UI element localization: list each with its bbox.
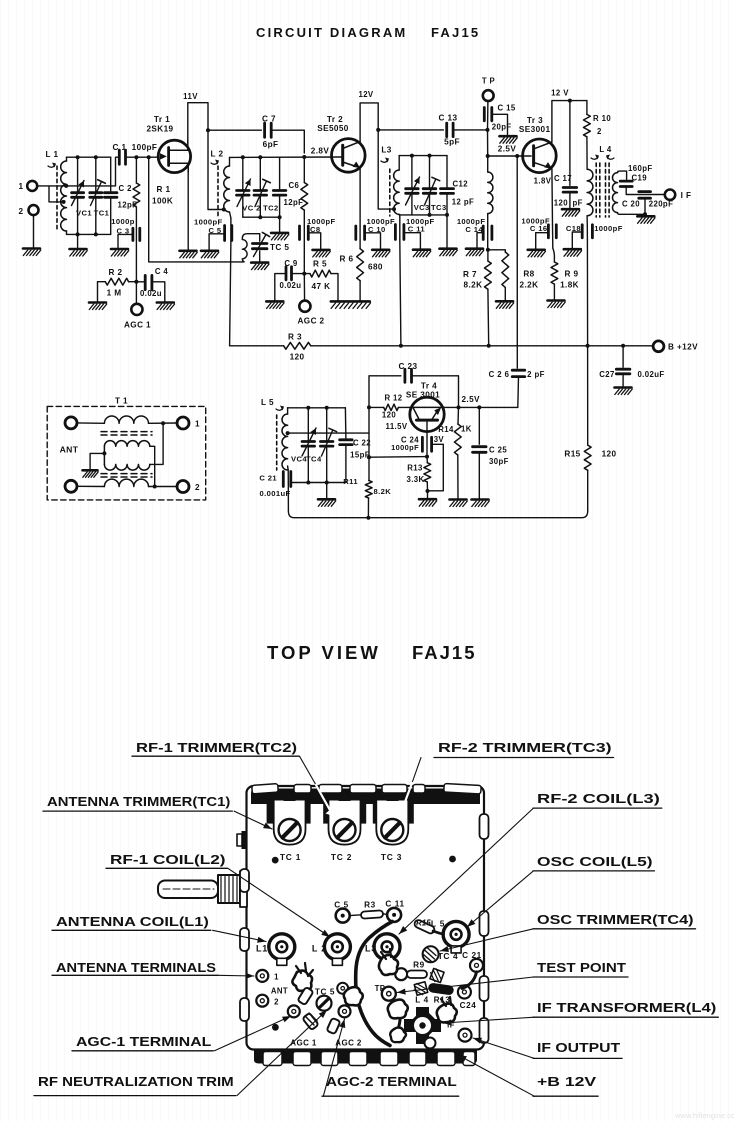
svg-text:RF-1 TRIMMER(TC2): RF-1 TRIMMER(TC2): [136, 740, 297, 755]
svg-text:RF-1 COIL(L2): RF-1 COIL(L2): [110, 852, 226, 867]
ground L1 tank: [70, 249, 88, 256]
svg-text:C 16: C 16: [530, 224, 548, 233]
svg-text:3.3K: 3.3K: [406, 475, 424, 484]
wire L2 tank top rail / Tr2 base line: [230, 156, 343, 158]
wire R10 to L4 primary: [586, 137, 588, 169]
svg-text:R8: R8: [523, 270, 534, 279]
pcb transistor blob 3: [379, 955, 398, 975]
svg-text:C8: C8: [310, 225, 321, 234]
coil T1 middle winding: [104, 441, 149, 447]
wire L2 tank bottom rail: [243, 216, 280, 218]
svg-text:RF-2 COIL(L3): RF-2 COIL(L3): [537, 791, 660, 806]
svg-text:+B 12V: +B 12V: [537, 1074, 597, 1089]
svg-text:R15: R15: [416, 919, 431, 928]
ground C27: [615, 388, 633, 395]
resistor R15 120: [587, 346, 589, 445]
wire L4 primary bottom to rail and R15: [586, 240, 588, 346]
svg-text:SE3001: SE3001: [519, 125, 551, 134]
wire 12V rail to C13: [378, 129, 443, 131]
svg-text:C 10: C 10: [368, 225, 386, 234]
pcb cap C21: [470, 959, 483, 972]
svg-text:5pF: 5pF: [444, 138, 460, 147]
ground C3: [111, 249, 129, 256]
svg-text:680: 680: [368, 263, 383, 272]
wire Tr4 base line: [426, 420, 428, 437]
svg-text:C 11: C 11: [385, 900, 404, 909]
pcb coil L1: [269, 934, 295, 960]
pcb small parts bottom: [297, 987, 313, 1005]
svg-text:www.hifiengine.com: www.hifiengine.com: [674, 1111, 734, 1120]
wire 12V feed to L3 tap: [378, 130, 392, 209]
wire T1 middle right links: [150, 446, 155, 486]
terminal antenna input 2: [29, 205, 39, 215]
wire rail to C7: [208, 129, 261, 131]
svg-text:C18: C18: [566, 224, 581, 233]
wire base node to Tr3: [488, 155, 531, 157]
trimmer TC3 body: [373, 800, 414, 824]
wire L1 tank top rail: [67, 156, 111, 158]
ground TC5: [251, 263, 269, 270]
resistor R4 unlabeled: [303, 157, 305, 183]
capacitor C10 1000pF: [359, 226, 361, 249]
transformer T1 box: [47, 406, 206, 500]
svg-text:R 7: R 7: [463, 270, 477, 279]
pcb terminal AGC2: [339, 1005, 351, 1017]
capacitor C5 1000pF: [230, 225, 232, 241]
wire TP junction to base node 2.5V: [487, 130, 489, 156]
svg-text:0.02u: 0.02u: [280, 281, 302, 290]
pcb cap C24: [458, 986, 471, 999]
svg-text:C19: C19: [632, 174, 648, 183]
mounting dots: [272, 857, 279, 864]
svg-text:ANT: ANT: [60, 445, 79, 455]
pcb transistor blob 1: [292, 971, 312, 991]
svg-text:12V: 12V: [358, 90, 373, 99]
svg-text:120: 120: [290, 353, 305, 362]
wire C23 branch: [369, 376, 401, 408]
wire L2 bottom to C5 line: [230, 218, 232, 225]
wire Tr4 collector node 2.5V: [444, 406, 518, 408]
wire L1 tank ground stub: [77, 234, 79, 248]
ground C4: [157, 303, 175, 310]
svg-text:20pF: 20pF: [492, 122, 512, 131]
svg-text:C27: C27: [599, 370, 615, 379]
svg-text:11.5V: 11.5V: [386, 422, 408, 431]
svg-text:11V: 11V: [183, 92, 198, 101]
trimmer capacitor TC3: [429, 156, 431, 189]
wire C19 to IF terminal: [626, 187, 665, 195]
wire R11 top link: [369, 456, 427, 459]
transistor Tr2 SE5050: [332, 139, 366, 173]
wire L4 secondary top to C19: [618, 171, 627, 179]
svg-text:IF OUTPUT: IF OUTPUT: [537, 1040, 620, 1055]
variable capacitor VC3: [411, 156, 413, 189]
svg-text:R 10: R 10: [593, 114, 611, 123]
svg-text:L3: L3: [381, 146, 391, 155]
pcb resistor R13: [429, 983, 454, 994]
svg-text:1: 1: [19, 182, 24, 191]
capacitor C11 1000pF: [399, 215, 401, 226]
capacitor C18 1000pF: [586, 216, 588, 226]
node junction 11V rail: [206, 128, 210, 132]
trimmer TC2 body: [323, 800, 366, 824]
node base R11 junction: [425, 455, 429, 459]
pcb body outline: [247, 786, 485, 1050]
capacitor C27 0.02uF: [622, 346, 624, 367]
wire B+12V rail: [230, 345, 284, 347]
svg-text:0.001uF: 0.001uF: [259, 489, 290, 498]
resistor R12 120: [369, 406, 384, 408]
svg-text:TEST POINT: TEST POINT: [537, 960, 626, 975]
core dashes L2: [217, 166, 219, 216]
coil L3 primary: [398, 156, 400, 170]
wire T1 ground tap: [102, 451, 106, 455]
wire tank bottom ground stub: [326, 483, 328, 500]
wire C5 line down to R3 rail: [230, 241, 231, 346]
svg-text:VC4: VC4: [291, 455, 307, 464]
svg-text:L 5: L 5: [261, 398, 274, 407]
variable capacitor VC4: [307, 408, 309, 441]
capacitor C23: [403, 369, 406, 382]
svg-text:30pF: 30pF: [489, 457, 509, 466]
svg-text:VC3: VC3: [414, 203, 430, 212]
pcb terminal ANT2: [256, 995, 268, 1007]
wire Tr1 source to ground: [187, 166, 189, 251]
svg-text:TOP VIEW: TOP VIEW: [267, 642, 381, 663]
wire C21 down to bottom rail: [287, 483, 289, 512]
resistor R10 2: [586, 101, 588, 115]
pcb top strip with tabs: [251, 789, 480, 805]
svg-text:C 1: C 1: [113, 143, 127, 152]
pcb wire C21 to R13: [462, 972, 477, 989]
ground C18: [564, 249, 582, 256]
svg-text:2: 2: [195, 483, 200, 492]
svg-text:C 9: C 9: [284, 259, 298, 268]
svg-text:T P: T P: [482, 77, 495, 86]
svg-text:120: 120: [602, 450, 617, 459]
svg-text:R9: R9: [413, 961, 425, 970]
svg-text:1.8V: 1.8V: [534, 177, 552, 186]
capacitor C15 20pF: [483, 108, 486, 121]
svg-text:VC1: VC1: [76, 209, 92, 218]
svg-text:TC2: TC2: [263, 204, 279, 213]
svg-text:120: 120: [382, 411, 396, 420]
svg-text:C6: C6: [289, 181, 300, 190]
capacitor C2 12pF: [110, 157, 112, 192]
ground terminal 2: [23, 249, 41, 256]
variable capacitor VC2: [242, 157, 244, 190]
resistor R6 680: [357, 249, 364, 281]
wire C7 to Tr2 base node: [271, 130, 304, 153]
ground C17: [562, 209, 580, 216]
svg-text:L1: L1: [256, 944, 268, 954]
svg-text:OSC TRIMMER(TC4): OSC TRIMMER(TC4): [537, 912, 694, 927]
coil L4 primary: [587, 169, 593, 216]
svg-text:3V: 3V: [434, 435, 445, 444]
terminal T1 top-left: [65, 417, 77, 429]
svg-text:47 K: 47 K: [312, 282, 331, 291]
svg-text:ANTENNA TERMINALS: ANTENNA TERMINALS: [56, 960, 216, 975]
ground L4 secondary: [644, 214, 646, 216]
svg-text:TC 5: TC 5: [270, 243, 289, 252]
svg-text:2.5V: 2.5V: [461, 395, 480, 404]
pcb trimmer TC5: [317, 996, 332, 1011]
core dashes L4: [595, 163, 597, 217]
svg-text:1.8K: 1.8K: [560, 281, 579, 290]
svg-text:I F: I F: [681, 191, 692, 200]
pcb side tabs: [240, 869, 249, 892]
resistor R5 47K: [304, 273, 310, 275]
pcb coil L2: [324, 934, 350, 960]
svg-text:OSC COIL(L5): OSC COIL(L5): [537, 854, 653, 869]
capacitor C24 1000pF: [426, 437, 428, 457]
wire C24 stub to R13 bottom: [428, 444, 443, 491]
svg-text:2: 2: [274, 997, 279, 1006]
wire L5 tank top rail: [288, 407, 346, 409]
resistor R9 1.8K: [553, 248, 555, 262]
node junction 12V rail: [376, 128, 380, 132]
pcb terminal AGC1: [288, 1005, 300, 1017]
svg-text:R 1: R 1: [157, 185, 171, 194]
svg-text:15pF: 15pF: [350, 451, 370, 460]
svg-text:C 2 6: C 2 6: [489, 370, 510, 379]
wire Tr3 collector to 12V: [552, 101, 587, 142]
resistor R2 1M: [98, 282, 106, 303]
trimmer capacitor TC1: [95, 157, 97, 192]
ground R8: [496, 301, 514, 308]
ground C8: [313, 250, 331, 257]
svg-text:IF TRANSFORMER(L4): IF TRANSFORMER(L4): [537, 1000, 716, 1015]
svg-text:C 4: C 4: [155, 267, 169, 276]
svg-text:L 4: L 4: [599, 145, 612, 154]
wire T1 top: [77, 422, 104, 424]
svg-text:T 1: T 1: [115, 397, 128, 406]
svg-text:FAJ15: FAJ15: [412, 642, 477, 663]
capacitor C13 5pF: [445, 123, 448, 136]
svg-text:C 7: C 7: [262, 115, 276, 124]
ground C14: [466, 249, 484, 256]
ground C25: [472, 500, 490, 507]
svg-text:R 6: R 6: [340, 255, 354, 264]
resistor R1 100K: [135, 157, 137, 183]
svg-text:C 11: C 11: [408, 225, 426, 234]
pcb resistor R9: [395, 968, 407, 980]
svg-text:0.02u: 0.02u: [140, 289, 162, 298]
coil neutralization pickup loop: [242, 234, 259, 262]
ground C11: [413, 250, 431, 257]
wire L3 tank ground stub: [446, 215, 448, 249]
transistor Tr4 SE3001: [410, 397, 444, 431]
svg-text:160pF: 160pF: [628, 164, 653, 173]
terminal antenna input 1: [27, 181, 37, 191]
svg-text:C24: C24: [460, 1001, 477, 1010]
svg-text:ANTENNA COIL(L1): ANTENNA COIL(L1): [56, 914, 209, 929]
core dashes L3: [389, 169, 391, 216]
svg-text:R 9: R 9: [565, 270, 579, 279]
svg-text:R14: R14: [438, 425, 454, 434]
terminal B +12V: [653, 341, 664, 352]
svg-text:L 2: L 2: [211, 150, 224, 159]
resistor R13 3.3K: [426, 457, 428, 463]
svg-text:C 20: C 20: [622, 200, 640, 209]
svg-text:0.02uF: 0.02uF: [637, 370, 664, 379]
wire L3 tank bottom rail: [399, 214, 447, 216]
svg-text:SE 3001: SE 3001: [406, 390, 440, 399]
wire 2.5V node to C26: [516, 156, 518, 368]
svg-text:AGC 1: AGC 1: [124, 321, 151, 330]
wire gate line down for neutralization: [149, 157, 244, 262]
svg-text:TC 3: TC 3: [381, 852, 402, 862]
resistor R11 8.2K: [368, 407, 370, 480]
svg-text:1000pF: 1000pF: [594, 224, 623, 233]
svg-text:8.2K: 8.2K: [374, 487, 392, 496]
svg-text:C 13: C 13: [439, 114, 458, 123]
svg-text:L 5: L 5: [431, 919, 445, 929]
svg-text:100pF: 100pF: [132, 143, 158, 152]
coil L2: [229, 157, 231, 166]
trimmer capacitor TC2: [259, 157, 261, 190]
wire Tr3 emitter down: [551, 169, 554, 226]
ground T1: [83, 470, 99, 477]
trimmer capacitor TC4: [326, 408, 328, 441]
capacitor C16 1000pF: [552, 225, 554, 248]
svg-text:R11: R11: [343, 477, 358, 486]
svg-text:B +12V: B +12V: [668, 343, 698, 352]
svg-text:FAJ15: FAJ15: [431, 25, 480, 40]
wire 11V feed to L2 tap: [208, 130, 223, 209]
pcb terminal ANT1: [256, 970, 268, 982]
svg-text:8.2K: 8.2K: [464, 281, 483, 290]
transistor Tr1 2SK19 FET: [158, 140, 190, 172]
pcb thick wire snake: [356, 922, 393, 1046]
svg-text:1 M: 1 M: [107, 289, 122, 298]
svg-text:C 21: C 21: [259, 474, 277, 483]
terminal AGC 1: [135, 282, 137, 304]
wire C23 to collector node: [412, 376, 459, 408]
svg-text:2.2K: 2.2K: [520, 281, 539, 290]
pcb wire R15 to L5: [433, 931, 444, 934]
tuning shaft: [158, 881, 218, 899]
pcb terminal IF output: [459, 1029, 472, 1042]
node AGC1 junction: [134, 280, 138, 284]
pcb resistor R3: [361, 910, 383, 919]
pcb trimmer TC4: [423, 946, 439, 962]
svg-text:RF NEUTRALIZATION TRIM: RF NEUTRALIZATION TRIM: [38, 1074, 234, 1089]
svg-text:L3: L3: [365, 944, 377, 954]
core dashes T1 lower: [101, 473, 152, 475]
svg-text:2: 2: [19, 207, 24, 216]
node junction R7 R8: [486, 248, 490, 252]
svg-text:TC3: TC3: [431, 203, 447, 212]
svg-text:100K: 100K: [152, 197, 173, 206]
ground Tr1 source: [180, 251, 198, 258]
coil L3 secondary: [487, 156, 489, 172]
ground R14: [450, 500, 468, 507]
wire Tr2 emitter down: [359, 168, 361, 226]
pcb hatched part 2: [414, 982, 427, 995]
svg-text:TC 2: TC 2: [331, 852, 352, 862]
svg-text:TP: TP: [375, 984, 386, 993]
core dashes L1: [56, 166, 58, 231]
svg-text:AGC-1 TERMINAL: AGC-1 TERMINAL: [76, 1034, 211, 1049]
terminal TP test point: [487, 101, 489, 130]
ground C15: [500, 136, 518, 143]
ground C16: [528, 250, 546, 257]
svg-text:R3: R3: [364, 901, 376, 910]
svg-text:1K: 1K: [461, 425, 472, 434]
svg-text:12 V: 12 V: [551, 89, 569, 98]
wire L5 tap line: [288, 432, 369, 434]
svg-text:2: 2: [597, 127, 602, 136]
svg-text:R 5: R 5: [313, 260, 327, 269]
svg-text:AGC 1: AGC 1: [290, 1039, 317, 1048]
capacitor C19 160pF: [620, 180, 632, 183]
pcb cap C11: [387, 908, 401, 922]
capacitor C12 12pF: [446, 156, 448, 189]
capacitor C14 1000pF: [482, 226, 485, 240]
svg-text:CIRCUIT DIAGRAM: CIRCUIT DIAGRAM: [256, 25, 407, 40]
svg-text:C 23: C 23: [399, 362, 418, 371]
svg-text:AGC-2 TERMINAL: AGC-2 TERMINAL: [326, 1074, 457, 1089]
svg-text:R 3: R 3: [288, 333, 302, 342]
pcb transistor blob 2: [344, 987, 363, 1005]
svg-text:1: 1: [195, 420, 200, 429]
wire C11 line to B+ rail: [400, 240, 401, 346]
svg-text:R15: R15: [564, 450, 580, 459]
capacitor C20 220pF: [639, 190, 651, 193]
ground L5 tank: [318, 499, 336, 506]
wire Tr1 drain to 11V: [188, 103, 208, 143]
trimmer TC1 body: [267, 800, 311, 824]
svg-text:L 2: L 2: [312, 944, 327, 954]
terminal AGC 2: [303, 274, 305, 304]
svg-text:pF: pF: [573, 199, 583, 208]
ground C9: [266, 301, 284, 308]
pcb resistor R15: [413, 919, 435, 935]
svg-text:R 12: R 12: [384, 393, 402, 402]
capacitor C4 0.02u: [136, 281, 145, 283]
ground R13: [419, 499, 437, 506]
wire L4 secondary bottom: [618, 213, 646, 215]
pcb cap C5: [336, 909, 350, 923]
terminal T1 bottom-left: [65, 480, 77, 492]
svg-text:ANT: ANT: [271, 986, 288, 995]
capacitor C21 0.001uF: [287, 466, 290, 470]
coil L4 secondary: [613, 173, 618, 213]
svg-text:C12: C12: [453, 180, 469, 189]
svg-text:TC1: TC1: [94, 209, 110, 218]
terminal T1 output 2: [177, 481, 189, 493]
wire terminal1 to L1 taps: [37, 186, 63, 202]
coil L1: [61, 161, 67, 231]
svg-text:L 1: L 1: [46, 150, 59, 159]
capacitor C17 120pF: [569, 101, 571, 186]
svg-text:C 15: C 15: [498, 104, 516, 113]
pcb transistor blob 5: [437, 1004, 457, 1023]
svg-text:C 5: C 5: [334, 901, 349, 910]
core dashes L5: [276, 415, 278, 470]
svg-text:RF-2 TRIMMER(TC3): RF-2 TRIMMER(TC3): [438, 740, 612, 755]
svg-text:Tr 2: Tr 2: [327, 115, 343, 124]
svg-text:C 21: C 21: [462, 951, 482, 960]
capacitor C8 1000pF: [303, 226, 305, 274]
svg-text:TC 5: TC 5: [315, 988, 335, 997]
svg-text:L 4: L 4: [415, 996, 428, 1005]
pcb terminal TP: [382, 987, 396, 1001]
wire oscillator bottom rail: [288, 511, 587, 518]
coil T1 primary top: [104, 416, 148, 423]
svg-text:TC 1: TC 1: [280, 852, 301, 862]
